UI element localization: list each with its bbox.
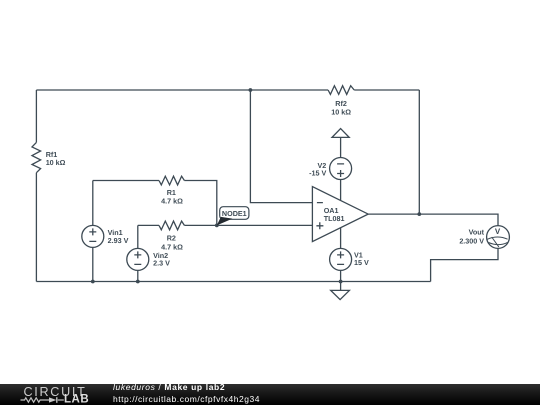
node junction Vin2 ground [136, 280, 140, 284]
wire left vertical lower [35, 173, 37, 282]
svg-text:TL081: TL081 [324, 214, 345, 223]
resistor R2 [159, 221, 184, 230]
svg-text:2.93 V: 2.93 V [108, 236, 129, 245]
wire R2 left [138, 224, 159, 226]
source V2 [330, 158, 352, 180]
svg-text:2.300 V: 2.300 V [459, 237, 484, 246]
voltmeter Vout [487, 226, 510, 249]
svg-text:R2: R2 [167, 233, 176, 242]
resistor Rf1 [32, 142, 41, 172]
svg-text:4.7 kΩ: 4.7 kΩ [161, 196, 183, 205]
wire voltmeter return [431, 248, 498, 281]
wire V1 bottom [340, 270, 342, 281]
wire left vertical upper [35, 90, 37, 142]
wire R2 right / non-inverting input [184, 224, 312, 226]
wire V1 to op-amp [340, 228, 342, 249]
wire top rail left [36, 89, 328, 91]
resistor R1 [159, 176, 184, 185]
svg-text:V: V [495, 227, 501, 236]
node junction output [417, 212, 421, 216]
wire Vin2 top [137, 225, 139, 248]
wire R1 right [184, 181, 216, 226]
node junction top [249, 88, 253, 92]
wire ground stub [340, 282, 342, 291]
node NODE1 flag [217, 207, 249, 226]
node junction Vin1 ground [91, 280, 95, 284]
wire bottom rail [36, 281, 430, 283]
wire V2 top [340, 137, 342, 157]
source V1 [330, 248, 352, 270]
svg-text:2.3 V: 2.3 V [153, 259, 170, 268]
op-amp OA1 [312, 187, 368, 242]
svg-text:10 kΩ: 10 kΩ [331, 108, 351, 117]
wire Vin1 top [92, 181, 94, 226]
wire V2 to op-amp [340, 180, 342, 201]
svg-text:Vout: Vout [469, 228, 485, 237]
node NODE1 junction [215, 224, 219, 228]
svg-text:LAB: LAB [64, 394, 89, 405]
wire inverting input [250, 90, 312, 203]
svg-text:15 V: 15 V [354, 258, 369, 267]
source Vin2 [127, 248, 149, 270]
wire top rail right [354, 89, 419, 91]
source Vin1 [82, 225, 104, 247]
wire output [368, 214, 498, 226]
resistor Rf2 [328, 86, 354, 95]
wire Vin2 bottom [137, 270, 139, 281]
svg-text:-15 V: -15 V [309, 169, 326, 178]
wire Vin1 bottom [92, 247, 94, 281]
node junction V1 ground [339, 280, 343, 284]
svg-text:10 kΩ: 10 kΩ [46, 158, 66, 167]
CircuitLab logo [0, 384, 110, 405]
footer bar [0, 384, 540, 405]
ground top [332, 129, 349, 138]
ground bottom [331, 290, 350, 299]
wire output riser [418, 90, 420, 214]
svg-text:NODE1: NODE1 [222, 209, 247, 218]
wire R1 left [93, 180, 159, 182]
